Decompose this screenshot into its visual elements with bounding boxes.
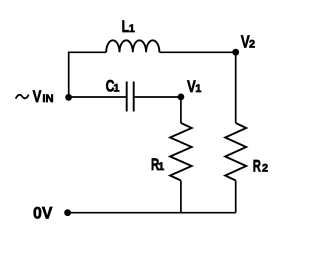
- svg-text:1: 1: [195, 83, 201, 95]
- svg-text:1: 1: [158, 161, 164, 173]
- svg-text:0V: 0V: [33, 204, 53, 223]
- svg-text:IN: IN: [42, 93, 53, 105]
- svg-text:2: 2: [249, 39, 255, 51]
- svg-text:R: R: [253, 156, 261, 175]
- svg-text:1: 1: [129, 23, 135, 35]
- svg-text:V: V: [33, 87, 42, 106]
- svg-text:1: 1: [113, 82, 119, 94]
- svg-text:2: 2: [262, 162, 268, 174]
